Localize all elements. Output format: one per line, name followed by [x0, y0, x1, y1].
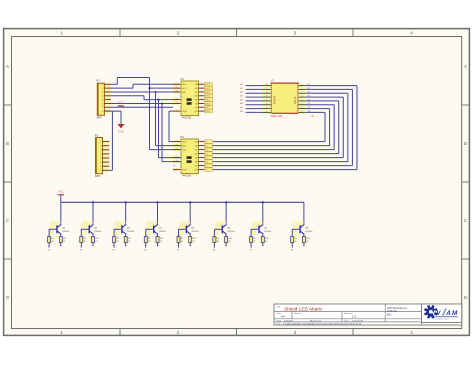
svg-text:7: 7 [301, 107, 302, 109]
svg-text:5: 5 [201, 102, 202, 104]
svg-text:QG: QG [195, 107, 199, 109]
svg-text:Time:: Time: [344, 320, 350, 322]
svg-text:SCK: SCK [182, 146, 187, 148]
svg-text:H1: H1 [48, 249, 50, 251]
svg-text:H6: H6 [213, 249, 215, 251]
svg-text:1: 1 [201, 144, 202, 146]
svg-text:5/29/2013: 5/29/2013 [284, 320, 294, 322]
svg-text:E:\VNMLab\ARMDevelopKit\ARMDev: E:\VNMLab\ARMDevelopKit\ARMDevKit.Hardwa… [283, 323, 362, 326]
title block [274, 304, 462, 325]
wire row net A2 [240, 87, 262, 90]
logo gear [424, 305, 438, 319]
wire row net A8 [240, 110, 262, 113]
resistor R11 collector [124, 237, 131, 247]
svg-text:2N3906: 2N3906 [305, 231, 313, 233]
svg-text:3: 3 [201, 94, 202, 96]
transistor Q8 [290, 202, 314, 243]
svg-text:4: 4 [201, 156, 202, 158]
transistor Q4 [143, 201, 167, 243]
svg-text:7: 7 [201, 110, 202, 112]
company info box [387, 307, 407, 316]
transistor Q7 [248, 201, 272, 243]
svg-text:74HC595: 74HC595 [182, 176, 192, 178]
svg-text:Number:: Number: [294, 312, 303, 315]
svg-text:B: B [464, 141, 467, 146]
svg-text:2N3906: 2N3906 [264, 231, 272, 233]
svg-text:C2: C2 [205, 146, 207, 148]
svg-text:www.vnmlab.example: www.vnmlab.example [434, 318, 450, 320]
svg-text:2: 2 [201, 148, 202, 150]
svg-text:10: 10 [266, 96, 268, 98]
svg-text:14: 14 [176, 83, 178, 85]
svg-text:2N3906: 2N3906 [62, 231, 70, 233]
wire net2 pin2 to SDin [111, 84, 173, 88]
title text Shield LED Matrix [277, 306, 323, 313]
svg-text:1: 1 [201, 87, 202, 89]
svg-text:P2: P2 [97, 79, 101, 83]
svg-text:VIN: VIN [311, 116, 315, 118]
svg-text:3: 3 [201, 152, 202, 154]
resistor R14 collector [225, 237, 232, 247]
svg-text:R1C7: R1C7 [205, 107, 210, 109]
power VCC rail bottom [58, 191, 64, 203]
svg-text:R1C3: R1C3 [205, 92, 210, 94]
svg-text:BK2: BK2 [387, 313, 392, 316]
svg-text:R1C5: R1C5 [205, 100, 210, 102]
svg-text:2N3906: 2N3906 [191, 231, 199, 233]
logo text V/AM [431, 308, 459, 320]
wire row net A6 [240, 102, 262, 105]
svg-text:VCC: VCC [118, 101, 123, 104]
svg-text:6: 6 [266, 111, 267, 113]
resistor R7 base [250, 237, 257, 252]
svg-text:12: 12 [266, 88, 268, 90]
svg-text:B: B [6, 141, 9, 146]
resistor R3 base [113, 237, 120, 252]
svg-text:COL18: COL18 [295, 96, 297, 104]
shift register IC1 [173, 78, 213, 119]
wire matrix col R7 to IC2 [213, 107, 330, 146]
svg-text:15: 15 [201, 140, 203, 142]
wire VCC rail [61, 201, 304, 203]
svg-text:A: A [445, 310, 451, 317]
svg-text:SIP8: SIP8 [95, 176, 101, 178]
wire matrix col R8 to IC2 [213, 111, 325, 142]
svg-text:7: 7 [266, 107, 267, 109]
svg-text:QC: QC [195, 150, 199, 152]
svg-text:C: C [6, 218, 9, 223]
svg-text:7: 7 [201, 168, 202, 170]
svg-text:SQH: SQH [182, 170, 187, 172]
svg-text:Date:: Date: [277, 319, 282, 322]
svg-text:ROW18: ROW18 [275, 95, 277, 104]
wire row net A1 [240, 83, 262, 86]
svg-text:12: 12 [176, 91, 178, 93]
svg-text:QH: QH [195, 111, 199, 113]
svg-text:Matrix 8x8: Matrix 8x8 [271, 115, 283, 118]
svg-text:1.0: 1.0 [352, 315, 357, 319]
wire net1 staircase [111, 78, 150, 85]
wire cascade SQH to SDin [169, 111, 173, 141]
svg-text:VCC: VCC [58, 191, 63, 194]
svg-text:R1C4: R1C4 [205, 96, 210, 98]
svg-text:1: 1 [301, 84, 302, 86]
svg-text:C6: C6 [205, 162, 207, 164]
svg-text:U7: U7 [271, 79, 275, 83]
inner border frame [12, 37, 462, 329]
connector P3 [95, 133, 110, 178]
svg-text:5: 5 [301, 100, 302, 102]
svg-text:3: 3 [301, 92, 302, 94]
wire net6 pin7 VCC rail [111, 106, 173, 108]
wire net3 pin3 LAT [111, 91, 181, 146]
svg-text:H4: H4 [144, 249, 146, 251]
svg-text:A: A [464, 64, 467, 69]
power VCC top [118, 101, 124, 107]
resistor R10 collector [92, 237, 99, 247]
svg-text:R1C2: R1C2 [205, 88, 210, 90]
svg-text:Sheet 1 of 1: Sheet 1 of 1 [310, 319, 322, 322]
svg-text:C: C [464, 218, 467, 223]
svg-text:C5: C5 [205, 158, 207, 160]
svg-text:9: 9 [266, 100, 267, 102]
svg-text:R1C8: R1C8 [205, 111, 210, 113]
svg-text:SCK: SCK [182, 88, 187, 90]
wire net4 pin4 OE [111, 96, 181, 158]
connector P2 [97, 79, 112, 120]
transistor Q5 [176, 201, 200, 243]
svg-text:A4: A4 [281, 314, 285, 318]
wire matrix col R1 to IC2 [213, 84, 357, 170]
LED matrix U7 [262, 79, 306, 119]
svg-text:QH: QH [195, 170, 199, 172]
svg-text:Shield LED Matrix: Shield LED Matrix [284, 307, 323, 313]
wire matrix col R6 to IC2 [213, 103, 334, 149]
wire row net A5 [240, 98, 262, 101]
resistor R4 base [144, 237, 151, 252]
svg-text:SIP8: SIP8 [97, 118, 103, 120]
svg-text:H8: H8 [291, 249, 293, 251]
ground GND symbol [117, 124, 124, 133]
svg-text:M: M [452, 310, 458, 317]
resistor R2 base [80, 237, 87, 252]
resistor R8 base [291, 237, 298, 252]
date row [277, 319, 363, 322]
file row [277, 323, 362, 326]
svg-text:74HC595: 74HC595 [182, 118, 192, 120]
svg-text:C3: C3 [205, 150, 207, 152]
wire matrix col R2 to IC2 [213, 88, 353, 166]
svg-text:P3: P3 [95, 133, 99, 137]
svg-text:15: 15 [201, 83, 203, 85]
svg-text:2: 2 [201, 91, 202, 93]
svg-text:8: 8 [266, 103, 267, 105]
wire matrix col R5 to IC2 [213, 99, 339, 153]
svg-text:6: 6 [201, 164, 202, 166]
svg-text:5: 5 [201, 160, 202, 162]
svg-text:R1C1: R1C1 [205, 84, 210, 86]
wire matrix col R4 to IC2 [213, 95, 343, 157]
svg-text:+: + [173, 164, 175, 168]
resistor R9 collector [59, 237, 66, 247]
resistor R12 collector [156, 237, 163, 247]
wire row net A7 [240, 106, 262, 109]
svg-text:C7: C7 [205, 166, 207, 168]
svg-text:2: 2 [301, 88, 302, 90]
wire row net A4 [240, 94, 262, 97]
resistor R5 base [177, 237, 184, 252]
svg-text:9: 9 [176, 168, 177, 170]
svg-text:11: 11 [176, 87, 178, 89]
svg-text:File:: File: [277, 324, 281, 326]
resistor R6 base [213, 237, 220, 252]
resistor R16 collector [302, 237, 309, 247]
svg-text:D: D [6, 295, 9, 300]
svg-text:A: A [6, 64, 9, 69]
svg-text:6: 6 [301, 103, 302, 105]
resistor R13 collector [189, 237, 196, 247]
wire matrix col R3 to IC2 [213, 92, 348, 162]
svg-text:4:45:10 PM: 4:45:10 PM [352, 320, 363, 322]
svg-text:QD: QD [195, 154, 199, 156]
wire row net A3 [240, 91, 262, 94]
svg-text:R1C6: R1C6 [205, 103, 210, 105]
svg-text:D: D [464, 295, 467, 300]
size/number/revision row [277, 312, 357, 318]
svg-text:2N3906: 2N3906 [94, 231, 102, 233]
svg-text:4: 4 [301, 96, 302, 98]
svg-text:10: 10 [176, 102, 178, 104]
resistor R15 collector [261, 237, 268, 247]
svg-text:C1: C1 [205, 142, 207, 144]
shift register IC2 [173, 136, 213, 177]
svg-text:C8: C8 [205, 170, 207, 172]
svg-text:SQH: SQH [182, 111, 187, 113]
svg-text:2N3906: 2N3906 [159, 231, 167, 233]
transistor Q1 [46, 202, 70, 243]
svg-text:H3: H3 [113, 249, 115, 251]
svg-text:2N3906: 2N3906 [227, 231, 235, 233]
wire net5 pin6 MR [111, 102, 181, 161]
wire pin8 ground net [104, 111, 121, 170]
transistor Q2 [79, 201, 103, 243]
transistor Q6 [212, 201, 236, 243]
svg-text:13: 13 [266, 84, 268, 86]
svg-text:QD: QD [195, 96, 199, 98]
svg-text:H7: H7 [250, 249, 252, 251]
wire shared clock vertical [149, 78, 182, 150]
svg-text:14: 14 [176, 140, 178, 142]
svg-text:H2: H2 [80, 249, 82, 251]
svg-text:QC: QC [195, 92, 199, 94]
svg-text:H5: H5 [177, 249, 179, 251]
resistor R1 base [48, 237, 55, 252]
svg-text:QG: QG [195, 166, 199, 168]
svg-text:8: 8 [301, 111, 302, 113]
svg-text:9: 9 [176, 110, 177, 112]
svg-text:2N3906: 2N3906 [127, 231, 135, 233]
svg-text:6: 6 [201, 106, 202, 108]
svg-text:4: 4 [201, 98, 202, 100]
svg-text:GND: GND [118, 130, 124, 133]
transistor Q3 [111, 201, 135, 243]
svg-text:13: 13 [176, 98, 178, 100]
logo box [422, 304, 462, 323]
svg-text:Title:: Title: [277, 306, 282, 309]
svg-text:C4: C4 [205, 154, 207, 156]
svg-text:11: 11 [266, 92, 268, 94]
